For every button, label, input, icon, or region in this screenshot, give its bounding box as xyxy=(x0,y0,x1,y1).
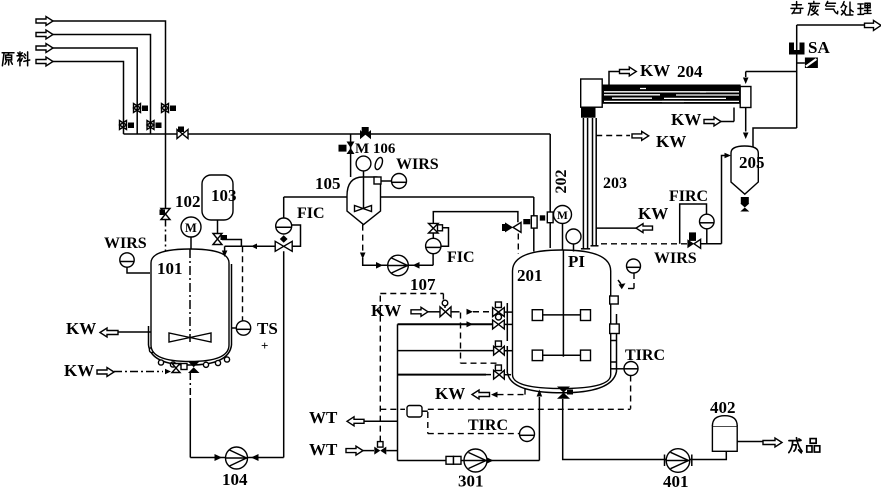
wire WT circulation bottom run xyxy=(398,460,447,462)
flow arrow KW jacket outlet xyxy=(491,392,498,398)
pump 104 xyxy=(226,447,248,469)
svg-text:PI: PI xyxy=(568,252,585,271)
wire KW in to condenser right channel xyxy=(721,108,734,122)
wire pump 107 discharge riser xyxy=(432,254,434,266)
reactor 201 jacket bottom arc xyxy=(508,372,617,393)
instrument TIRC-201 circle xyxy=(624,362,638,376)
feed header fitting into 201 xyxy=(547,134,553,248)
valve on 105 inlet drop xyxy=(339,142,355,155)
vessel 101 impeller xyxy=(169,333,211,342)
wire TE sensor to TIRC left (dashed) xyxy=(428,412,520,434)
wire jacket line A xyxy=(398,323,493,325)
wire TIRC-201 signal down (dashed) xyxy=(630,376,632,409)
svg-text:TIRC: TIRC xyxy=(625,347,665,364)
svg-text:KW: KW xyxy=(371,301,401,320)
flow arrow into pump 107 (left) xyxy=(376,262,383,269)
wire KW into column 203 bottom xyxy=(596,227,636,229)
vessel 105 agitator shaft xyxy=(363,177,365,208)
column 202 bottom flange xyxy=(581,248,590,250)
feed arrow 1 xyxy=(36,17,53,26)
pump 301 xyxy=(464,449,487,472)
wire jacket line C xyxy=(398,374,487,376)
nozzle fitting 201 right wall upper xyxy=(610,296,619,304)
instrument WIRS-201 circle xyxy=(627,259,641,273)
svg-text:201: 201 xyxy=(517,266,543,285)
svg-text:FIC: FIC xyxy=(297,205,325,222)
flow arrow line A xyxy=(467,321,474,327)
column 203 pipe xyxy=(593,118,597,246)
wire feed drop to vessel 101 xyxy=(165,134,167,208)
wire WT in xyxy=(363,450,374,452)
wire KW out condenser top xyxy=(609,72,620,85)
svg-text:102: 102 xyxy=(175,192,201,211)
svg-text:M: M xyxy=(557,210,568,222)
wire 205 vapor to vent riser xyxy=(753,128,797,147)
valve on header above 105 xyxy=(360,127,371,139)
column 202 pipe xyxy=(583,118,587,249)
instrument TS circle xyxy=(236,321,250,335)
wire TIRC-201 to jacket xyxy=(611,368,624,370)
svg-text:203: 203 xyxy=(603,175,627,192)
svg-text:KW: KW xyxy=(671,110,701,129)
svg-text:FIRC: FIRC xyxy=(669,188,708,205)
wire vent branch into condenser right top xyxy=(745,72,747,78)
svg-text:104: 104 xyxy=(222,470,248,487)
wire reactor 201 discharge xyxy=(563,399,666,460)
label 原料 (raw material) xyxy=(2,52,30,66)
svg-text:204: 204 xyxy=(677,62,703,81)
wire WIRS-105 connection xyxy=(381,180,392,182)
svg-text:TS: TS xyxy=(257,319,278,338)
control valve FIC-101 xyxy=(275,241,292,251)
condenser 204 shell (tube bundle) xyxy=(602,85,741,104)
svg-text:WT: WT xyxy=(309,440,338,459)
instrument FIC-107 circle xyxy=(426,238,441,253)
svg-text:301: 301 xyxy=(458,472,484,487)
feed arrow 4 xyxy=(36,57,53,66)
valve under 205 xyxy=(740,197,749,212)
feed arrow 2 xyxy=(36,30,53,39)
wire 103 valve to feed junction xyxy=(222,240,241,247)
wire motor M-201 stem xyxy=(562,224,564,251)
wire TS signal (dashed) xyxy=(242,246,244,320)
valve V1 on 201 wall xyxy=(493,302,513,317)
svg-text:103: 103 xyxy=(211,186,237,205)
wire KW supply to valve xyxy=(428,311,440,313)
motor 102 circle xyxy=(181,217,201,237)
arrow KW out condenser (hollow, right) xyxy=(620,67,637,76)
svg-text:WT: WT xyxy=(309,408,338,427)
arrow product out (hollow, right) xyxy=(763,438,782,447)
instrument WIRS-101 circle xyxy=(120,253,134,267)
svg-text:401: 401 xyxy=(663,472,689,487)
wire pump 301 to jacket bottom xyxy=(487,397,539,461)
wire 101 recirculation bottom run xyxy=(190,457,283,459)
wire KW jacket outlet (dashed) xyxy=(498,389,526,395)
svg-text:TIRC: TIRC xyxy=(468,417,508,434)
wire feed line 1 xyxy=(53,21,166,134)
vessel 402 xyxy=(712,416,737,452)
arrow KW dashed (hollow, right) xyxy=(632,131,649,140)
wire WIRS-201 probe into dome xyxy=(627,288,634,290)
svg-text:KW: KW xyxy=(656,132,686,151)
control valve KW supply xyxy=(440,300,451,317)
instrument TIRC-WT circle xyxy=(520,427,535,442)
motor M-201 xyxy=(554,206,572,224)
reactor 201 agitator shaft xyxy=(562,250,564,357)
instrument WIRS-105 circle xyxy=(392,174,407,189)
svg-text:FIC: FIC xyxy=(447,249,475,266)
wire pump 104 riser xyxy=(283,251,285,457)
svg-text:WIRS: WIRS xyxy=(396,156,439,173)
valve on feed drop 2 xyxy=(147,121,162,130)
wire dashed into 201 dome xyxy=(517,234,519,255)
reactor 201 bottom valve xyxy=(557,387,570,399)
wire 105 outlet to pump 107 xyxy=(363,258,433,265)
valve actuator diamond xyxy=(280,235,288,243)
svg-text:402: 402 xyxy=(710,398,736,417)
wire FIC signal loop xyxy=(292,225,301,246)
jacket ticks right wall xyxy=(611,341,617,363)
junction arrow into vessel 101 xyxy=(224,246,226,251)
valve on feed header xyxy=(177,127,188,139)
wire WIRS-101 to vessel xyxy=(127,267,150,273)
nozzle fitting 201 right wall mid xyxy=(610,324,620,334)
svg-text:WIRS: WIRS xyxy=(104,235,147,252)
svg-text:SA: SA xyxy=(808,38,830,57)
svg-text:+: + xyxy=(261,338,268,353)
sight glass (egg) on 105 xyxy=(374,156,384,170)
wire WIRS-201 dashed stem xyxy=(633,273,635,289)
reactor 201 jacket left segments xyxy=(506,303,508,373)
wire control signal dashed loop (to KW and WT valves) xyxy=(380,294,443,442)
svg-text:KW: KW xyxy=(435,384,465,403)
wire FIC-107 signal loop xyxy=(441,228,449,246)
instrument FIRC circle xyxy=(700,214,715,229)
wire WT out xyxy=(364,420,398,422)
vessel 101 body xyxy=(151,249,229,362)
wire pump 401 to vessel 402 xyxy=(690,451,726,459)
control valve FIRC xyxy=(687,232,700,248)
arrow KW in condenser (hollow, right) xyxy=(704,117,721,126)
wire FIRC valve to 205 riser xyxy=(701,243,722,245)
wire KW out 101 xyxy=(118,331,151,333)
pump 401 xyxy=(666,449,690,473)
wire feed line 2 xyxy=(53,35,151,135)
arrow KW in 101 (hollow, right) xyxy=(97,368,114,377)
svg-text:KW: KW xyxy=(638,204,668,223)
wire transfer line 101-FIC to reactor 201 drop xyxy=(284,196,534,198)
wire FIRC circle to line xyxy=(706,229,708,244)
wire 105 cone outlet (dashed) xyxy=(362,225,364,251)
feed drop fitting into 201 (from line 101) xyxy=(523,197,545,252)
wire valve to vessel 101 dome (dash-dot) xyxy=(165,220,167,253)
vessel 101 jacket bottom arc xyxy=(149,345,232,365)
column 203 bottom flange xyxy=(591,245,599,247)
wire vent header xyxy=(746,71,797,73)
valve on feed drop 3 xyxy=(134,104,149,113)
valve on feed drop 1 xyxy=(162,104,177,113)
svg-text:WIRS: WIRS xyxy=(654,250,697,267)
valve on drop to vessel 101 xyxy=(160,209,171,220)
wire condensate into 205 xyxy=(745,108,747,132)
svg-text:KW: KW xyxy=(640,61,670,80)
agitator upper paddles xyxy=(532,310,543,321)
vessel 101 jacket right line xyxy=(231,264,233,345)
wire feed line 3 xyxy=(53,48,137,134)
agitator upper arm xyxy=(543,314,581,316)
flame arrester SA xyxy=(789,43,805,55)
wire TS to vessel wall xyxy=(232,327,237,329)
valve WT in xyxy=(374,442,386,455)
wire feed header xyxy=(124,133,551,135)
pump 401 ticks xyxy=(665,455,692,467)
wire TE sensor dashed to left xyxy=(380,408,405,410)
vessel 101 bottom valve xyxy=(181,362,200,374)
feed valve at reactor 201 inlet xyxy=(502,222,521,232)
wire feed line 4 xyxy=(53,62,124,135)
damper device xyxy=(797,58,818,69)
wire jacket line B xyxy=(398,350,494,352)
temperature sensor TE xyxy=(407,406,428,418)
svg-text:205: 205 xyxy=(739,153,765,172)
agitator lower arm xyxy=(543,354,581,356)
agitator lower paddles xyxy=(532,350,543,361)
valve V4 on 201 wall xyxy=(494,365,511,379)
svg-text:107: 107 xyxy=(410,275,436,294)
wire KW supply valve to reactor valve V1 xyxy=(451,311,460,313)
flow arrow after pump 301 xyxy=(487,458,494,464)
arrow KW supply (hollow, right) xyxy=(411,307,428,316)
valve on feed drop 4 xyxy=(120,121,135,130)
wire KW dashed from column 203 xyxy=(596,135,630,137)
svg-text:KW: KW xyxy=(66,319,96,338)
vessel 101 jacket nozzle bumps xyxy=(149,347,229,367)
wire dashed branch to jacket mid xyxy=(461,313,499,364)
valve under vessel 103 xyxy=(213,234,227,245)
wire header drop into vessel 105 xyxy=(350,134,352,177)
svg-text:M: M xyxy=(185,221,197,235)
svg-text:202: 202 xyxy=(553,170,570,194)
wire KW in 101 (dash-dot) xyxy=(114,371,163,373)
flow arrow into pump 104 (left side) xyxy=(215,454,223,461)
flow arrow into pump 104 (right side) xyxy=(251,454,259,461)
wire feed line into vessel 101 top xyxy=(225,245,276,247)
motor 106 circle xyxy=(356,156,371,171)
wire motor 106 stem xyxy=(363,171,365,177)
columns top flange (black) xyxy=(581,107,596,118)
wire strainer to pump 301 xyxy=(461,460,465,462)
condenser 204 right channel xyxy=(740,87,751,108)
wire feed into 205 xyxy=(722,156,727,244)
svg-text:101: 101 xyxy=(157,259,183,278)
label 去废气处理 (to waste gas treatment) xyxy=(791,1,871,15)
condenser 204 left channel xyxy=(581,79,603,107)
wire WT valve to header xyxy=(386,450,397,452)
arrow vent out (hollow, right) xyxy=(865,20,881,30)
feed arrow 3 xyxy=(36,44,53,53)
wire PI stem xyxy=(573,244,575,252)
instrument PI circle xyxy=(566,229,581,244)
vessel 101 agitator shaft xyxy=(189,249,191,342)
vessel 105 impeller xyxy=(355,206,372,212)
control valve above FIC-107 xyxy=(429,223,439,233)
vessel 105 body xyxy=(347,177,381,225)
arrow KW out 101 (hollow, left) xyxy=(100,328,118,337)
vessel 101 jacket left segment xyxy=(148,326,150,345)
arrow WT in (hollow, right) xyxy=(346,446,363,455)
wire utility header vertical xyxy=(397,324,399,460)
arrow KW into 203 (hollow, left) xyxy=(636,224,653,233)
wire dashed condensate return xyxy=(601,243,687,245)
wire vent riser xyxy=(796,25,798,128)
vessel 103 xyxy=(202,175,233,220)
flow arrow KW in xyxy=(165,369,171,375)
valve V3 on 201 wall xyxy=(494,341,513,355)
wire FIRC bracket xyxy=(680,204,707,244)
svg-text:KW: KW xyxy=(64,361,94,380)
wire vent out xyxy=(797,24,866,26)
label 成品 (product) xyxy=(789,438,820,453)
wire TE sensor dashed to TIRC right xyxy=(428,408,631,410)
wire FIC circle to valve xyxy=(432,233,434,238)
pump 107 xyxy=(388,255,409,276)
reactor 201 jacket right line xyxy=(616,314,618,372)
valve V2 on 201 wall xyxy=(493,314,513,329)
strainer before pump 301 xyxy=(446,456,461,464)
flow arrow into pump 107 (right) xyxy=(413,262,420,269)
wire 107 feed to reactor 201 xyxy=(433,212,518,224)
wire 101 bottom outlet xyxy=(189,373,191,399)
arrow WT out (hollow, left) xyxy=(347,417,364,426)
wire motor stem xyxy=(190,237,192,249)
reactor 201 body xyxy=(513,250,611,389)
valve at 101 jacket inlet xyxy=(172,364,180,373)
wire FIC circle to transfer line xyxy=(283,197,285,218)
nozzle box on 105 top right xyxy=(374,177,381,184)
flow arrow on feed line (left) xyxy=(251,244,257,250)
arrow KW jacket outlet (hollow, left) xyxy=(472,390,490,399)
instrument FIC-101 circle xyxy=(276,218,292,234)
wire vessel 103 outlet stem xyxy=(217,220,219,233)
svg-text:M 106: M 106 xyxy=(355,141,396,157)
vessel 205 body xyxy=(731,146,758,194)
flow arrow up into jacket xyxy=(537,390,543,397)
wire 402 outlet xyxy=(737,441,763,443)
svg-text:105: 105 xyxy=(315,174,341,193)
